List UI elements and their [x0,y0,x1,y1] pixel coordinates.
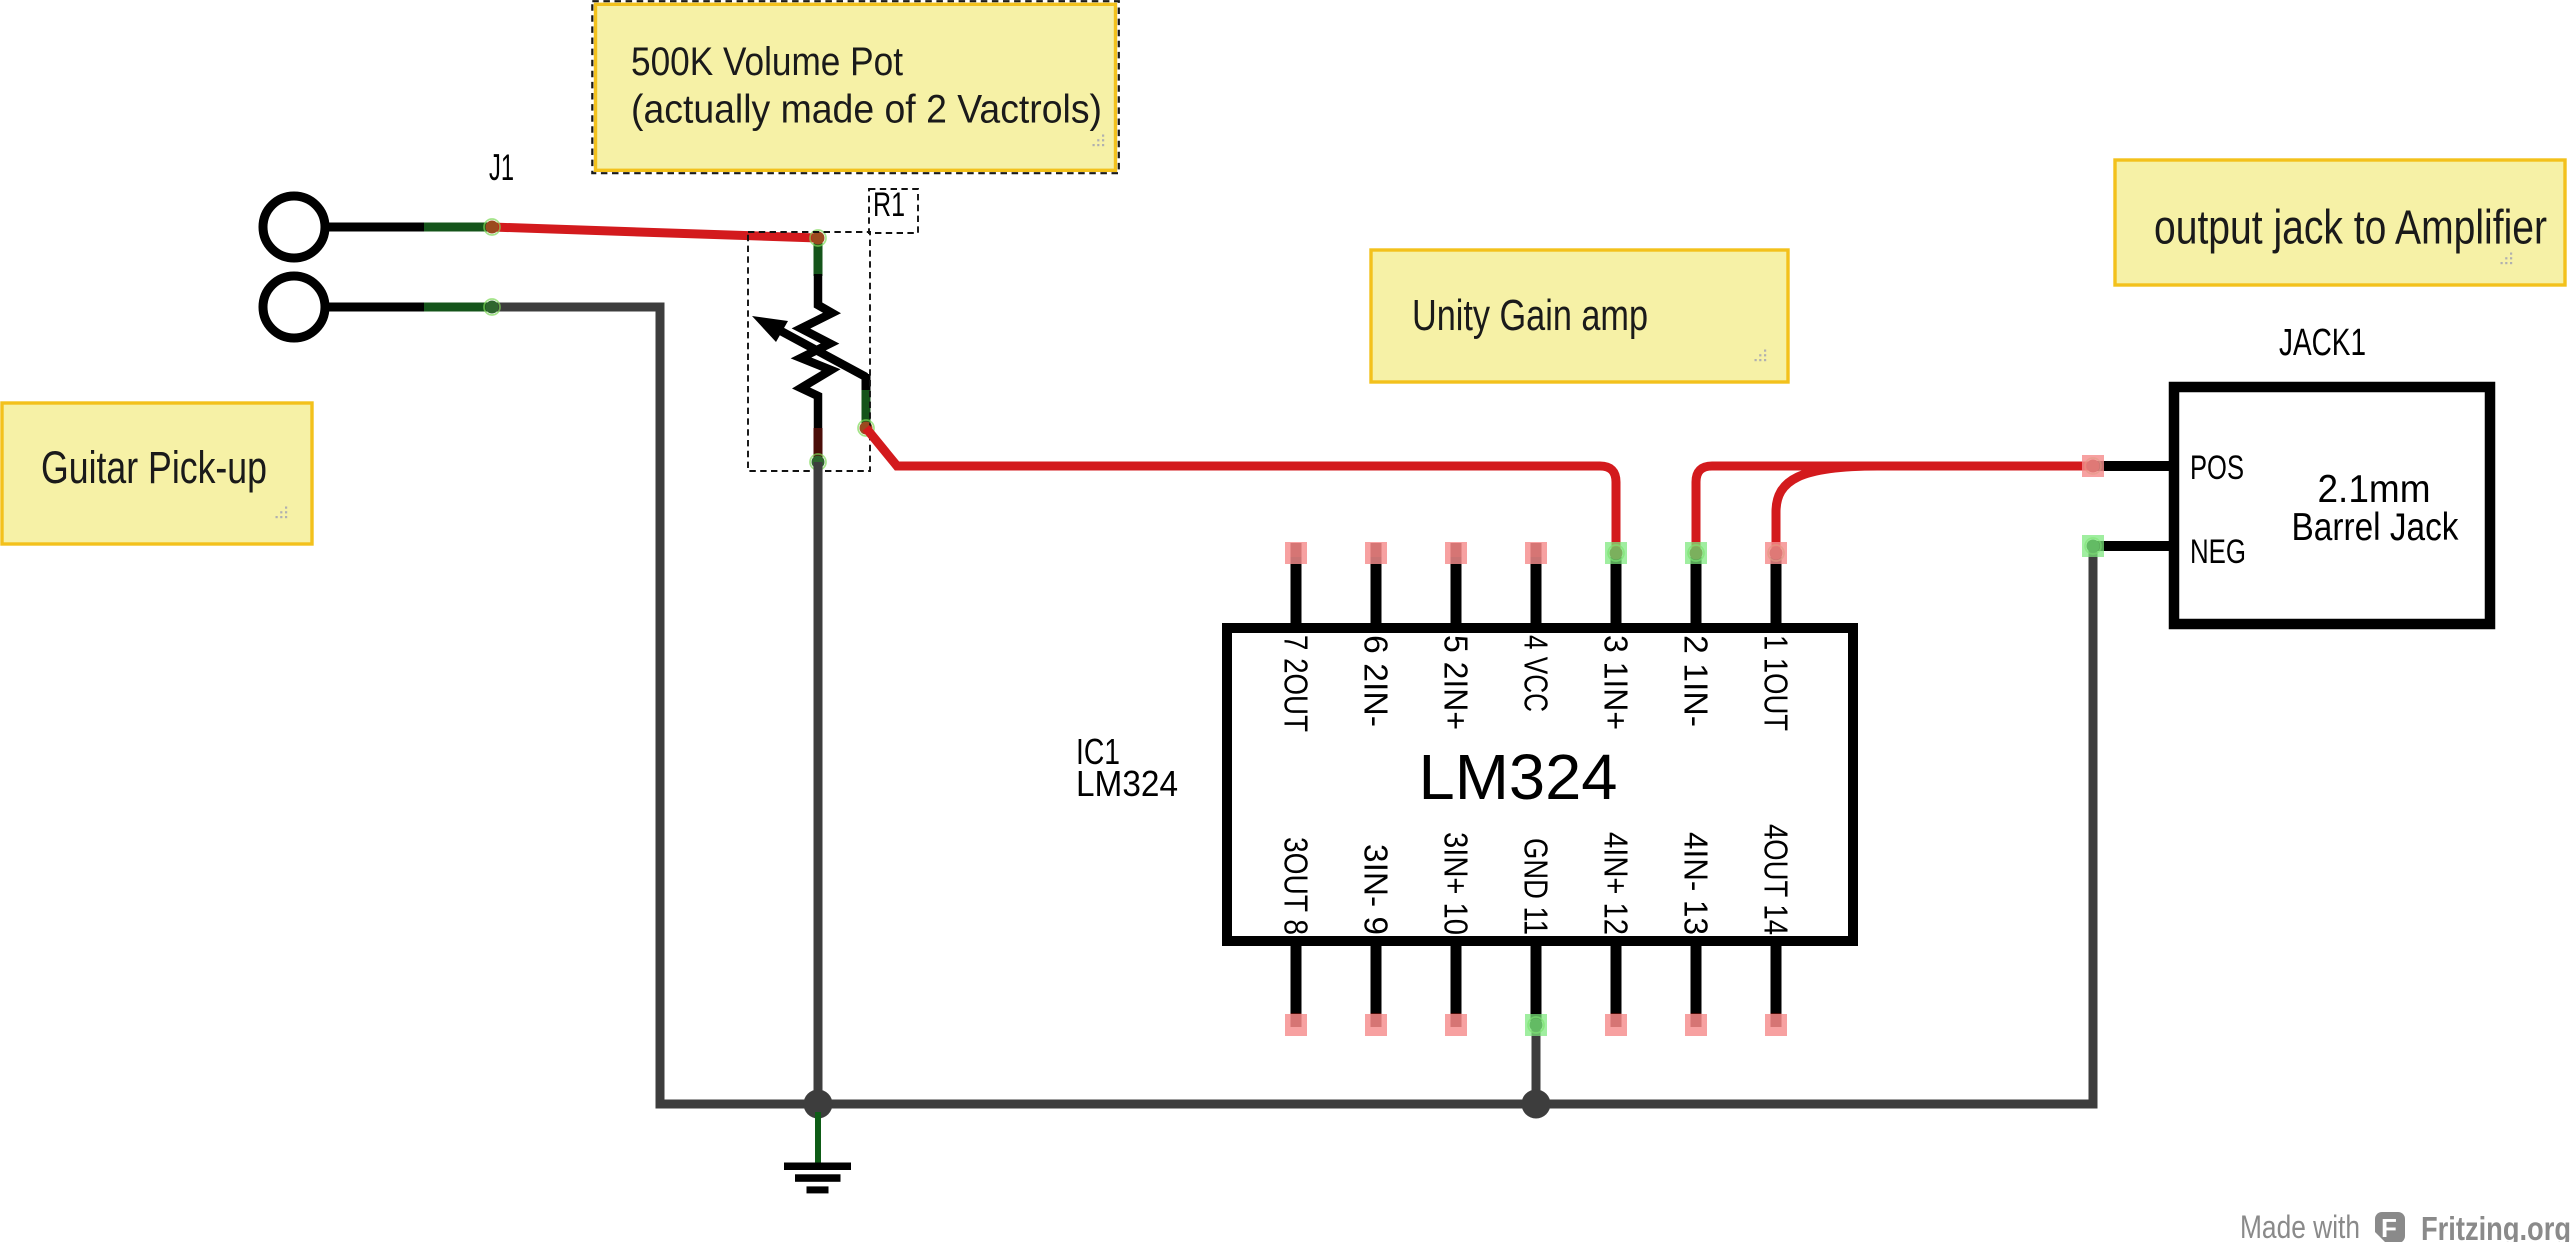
wire: IC GND pin to bus (gray) [1532,1027,1541,1104]
pin 7 square [1285,542,1307,564]
ground symbol [784,1112,851,1193]
footer: Made with Fritzing.org [2240,1209,2571,1242]
svg-text:R1: R1 [873,186,905,224]
R1 wiper lead [862,374,871,392]
IC1 pin end tips dark [1296,543,1776,1027]
svg-text:5 2IN+: 5 2IN+ [1438,635,1475,730]
svg-text:LM324: LM324 [1419,741,1618,813]
node: wire end dots on connected pins [1610,547,1623,560]
node: J1 pin2 connection [484,299,500,315]
svg-text:Unity Gain amp: Unity Gain amp [1412,291,1648,340]
svg-text:500K Volume Pot: 500K Volume Pot [631,40,903,84]
junction: ground node A [804,1090,833,1119]
svg-text:(actually made of 2 Vactrols): (actually made of 2 Vactrols) [631,88,1102,132]
svg-text:4IN+ 12: 4IN+ 12 [1598,832,1635,935]
svg-text:3IN- 9: 3IN- 9 [1358,844,1395,935]
connector J1 pin 2 lead [325,303,489,312]
svg-text:4 VCC: 4 VCC [1518,635,1555,712]
svg-text:NEG: NEG [2190,533,2246,571]
pin 11 square (GND, connected) [1525,1014,1547,1036]
pin 1 square [1765,542,1787,564]
R1 top lead [814,238,823,276]
svg-text:6 2IN-: 6 2IN- [1358,635,1395,727]
svg-text:output jack to Amplifier: output jack to Amplifier [2154,202,2547,255]
pin 9 square [1365,1014,1387,1036]
pin 4 square [1525,542,1547,564]
pin 3 square (connected) [1605,542,1627,564]
node: R1 bottom connection [810,454,826,470]
wire: ground bus to JACK1 NEG (gray) [1536,549,2093,1104]
R1 resistor zigzag [801,274,832,430]
node: J1 pin1 connection [484,219,500,235]
svg-text:Barrel Jack: Barrel Jack [2292,506,2459,549]
POS square [2082,455,2104,477]
connector J1 pin 1 circle [263,196,325,258]
svg-text:JACK1: JACK1 [2279,322,2366,364]
note: output jack to Amplifier [2115,160,2565,285]
IC1 body [1227,628,1853,941]
R1 wiper arrow [779,330,866,377]
svg-text:7 2OUT: 7 2OUT [1278,635,1315,732]
NEG square (connected) [2082,535,2104,557]
connector J1 pin 2 circle [263,276,325,338]
JACK1 body [2174,387,2490,624]
note: Unity Gain amp [1371,250,1788,382]
svg-text:GND 11: GND 11 [1518,838,1555,935]
pin 2 square (connected) [1685,542,1707,564]
wire: R1 bottom to ground junction (gray) [814,462,823,1104]
R1 selection box [748,232,870,471]
barrel jack JACK1 [2082,322,2490,624]
pin 8 square [1285,1014,1307,1036]
svg-text:LM324: LM324 [1076,763,1178,804]
svg-text:4IN- 13: 4IN- 13 [1678,832,1715,935]
wire: J1 pin1 to R1 top (red) [492,227,818,238]
svg-text:Guitar Pick-up: Guitar Pick-up [41,442,267,493]
svg-text:J1: J1 [489,147,514,188]
R1 bottom lead [814,428,823,458]
note: 500K Volume Pot [592,1,1119,173]
note: Guitar Pick-up [2,403,312,544]
potentiometer R1 [748,186,918,471]
wire: ground bus to IC GND junction (gray) [818,1100,1536,1109]
wire: J1 pin2 to ground bus (gray) [492,307,811,1104]
svg-text:2.1mm: 2.1mm [2318,468,2431,511]
label R1 [869,189,918,233]
IC1 top pin lines [1296,553,1776,624]
node: R1 wiper connection [858,420,874,436]
svg-text:3IN+ 10: 3IN+ 10 [1438,832,1475,935]
node: R1 top connection [810,230,826,246]
pin 13 square [1685,1014,1707,1036]
wire: IC pin 2 to JACK1 POS (red) [1696,466,2090,549]
pin 14 square [1765,1014,1787,1036]
node: NEG wire end [2087,540,2100,553]
pin 12 square [1605,1014,1627,1036]
JACK1 NEG pin line [2093,541,2169,551]
svg-text:Fritzing.org: Fritzing.org [2421,1211,2571,1242]
junction: IC GND node B [1522,1090,1551,1119]
svg-text:Made with: Made with [2240,1209,2360,1242]
svg-text:1 1OUT: 1 1OUT [1758,635,1795,731]
pin 5 square [1445,542,1467,564]
op-amp IC1 LM324 [1076,542,1853,1036]
node: POS wire end [2087,460,2100,473]
pin 10 square [1445,1014,1467,1036]
svg-text:2 1IN-: 2 1IN- [1678,635,1715,727]
wire: IC pin 1 to JACK1 POS (red, curved) [1776,466,2090,549]
svg-text:POS: POS [2190,449,2244,487]
JACK1 POS pin line [2093,461,2169,471]
svg-text:F: F [2381,1213,2397,1242]
svg-text:4OUT 14: 4OUT 14 [1758,824,1795,935]
wire: R1 wiper to IC pin 3 (red) [866,428,1616,549]
pin 6 square [1365,542,1387,564]
IC1 bottom pin lines [1296,945,1776,1025]
svg-text:3 1IN+: 3 1IN+ [1598,635,1635,730]
svg-text:3OUT 8: 3OUT 8 [1278,837,1315,935]
connector J1 pin 1 lead [325,223,489,232]
